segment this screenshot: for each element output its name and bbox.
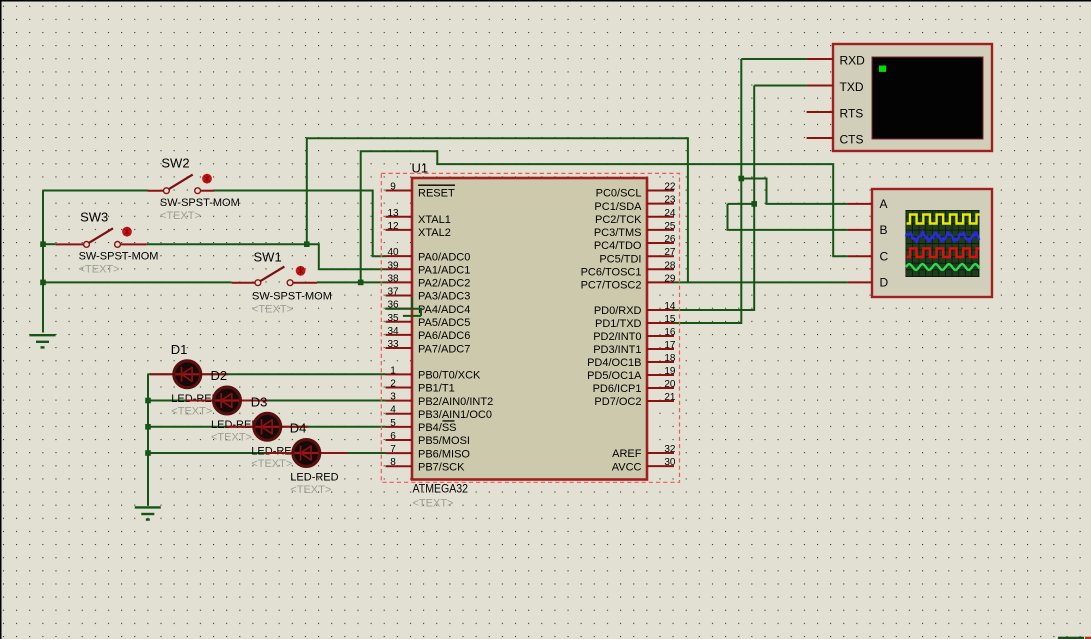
svg-text:7: 7: [390, 444, 396, 455]
window edge top: [0, 0, 1091, 2]
pin 22 PC0/SCL stub: [647, 190, 674, 192]
scope trace channel D green: [906, 264, 980, 270]
pin 2 PB1/T1 stub: [386, 386, 413, 388]
svg-text:<TEXT>: <TEXT>: [171, 406, 212, 418]
svg-text:PC7/TOSC2: PC7/TOSC2: [581, 280, 642, 292]
wire node JB to scope B: [728, 204, 848, 230]
ui fragment bottom right red: [1085, 637, 1091, 639]
svg-text:<TEXT>: <TEXT>: [252, 304, 293, 316]
wire fragment at PA4: [385, 298, 422, 316]
svg-text:SW-SPST-MOM: SW-SPST-MOM: [160, 197, 240, 209]
svg-text:PB2/AIN0/INT2: PB2/AIN0/INT2: [418, 396, 493, 408]
svg-text:12: 12: [387, 221, 399, 232]
svg-text:9: 9: [390, 182, 396, 193]
wire node J1 jog to PA1 pin39: [307, 244, 386, 269]
pin 39 PA1/ADC1 stub: [386, 268, 413, 270]
junction rail-SW1: [40, 280, 46, 286]
svg-text:24: 24: [664, 208, 676, 219]
svg-text:RESET: RESET: [418, 188, 455, 200]
pin 17 PD3/INT1 stub: [647, 348, 674, 350]
svg-text:TXD: TXD: [840, 80, 864, 94]
svg-text:PA2/ADC2: PA2/ADC2: [418, 278, 470, 290]
svg-text:XTAL2: XTAL2: [418, 227, 451, 239]
LED D3: [226, 413, 308, 440]
scope pin D: [848, 281, 872, 283]
svg-text:D3: D3: [251, 394, 268, 409]
svg-text:3: 3: [390, 392, 396, 403]
svg-text:6: 6: [390, 431, 396, 442]
svg-text:RTS: RTS: [840, 107, 864, 121]
pin 29 PC7/TOSC2 stub: [647, 281, 674, 283]
terminal pin RXD: [807, 58, 833, 60]
svg-text:PD3/INT1: PD3/INT1: [593, 344, 641, 356]
LED D2: [186, 387, 268, 414]
svg-text:<TEXT>: <TEXT>: [413, 498, 454, 510]
junction rail-D2: [145, 398, 151, 404]
svg-text:PA4/ADC4: PA4/ADC4: [418, 304, 470, 316]
wire PC7/TOSC2 pin29 to scope D: [674, 281, 848, 283]
wire RXD net down to PD1 pin15: [674, 59, 741, 323]
svg-text:PA5/ADC5: PA5/ADC5: [418, 317, 470, 329]
wire D2 row to PB2 pin3: [148, 400, 386, 402]
LED D4: [265, 440, 347, 467]
pin 28 PC6/TOSC1 stub: [647, 268, 674, 270]
pin 24 PC2/TCK stub: [647, 216, 674, 218]
pin 1 PB0/T0/XCK stub: [386, 373, 413, 375]
svg-text:D1: D1: [171, 342, 188, 357]
scope pin B: [848, 229, 872, 231]
svg-text:33: 33: [387, 339, 399, 350]
pin 26 PC4/TDO stub: [647, 242, 674, 244]
junction rail-SW3: [40, 241, 46, 247]
svg-text:U1: U1: [412, 161, 429, 176]
pin 32 AREF stub: [647, 452, 674, 454]
wire rail to SW1: [43, 281, 232, 283]
pin 25 PC3/TMS stub: [647, 229, 674, 231]
LED D1: [150, 361, 228, 388]
svg-text:4: 4: [390, 405, 396, 416]
overline SS: [443, 420, 455, 422]
svg-text:35: 35: [387, 313, 399, 324]
svg-text:PD5/OC1A: PD5/OC1A: [587, 370, 642, 382]
pin 18 PD4/OC1B stub: [647, 361, 674, 363]
svg-text:<TEXT>: <TEXT>: [290, 484, 331, 496]
svg-text:SW-SPST-MOM: SW-SPST-MOM: [79, 251, 159, 263]
wire D1 row to PB0 pin1: [148, 373, 386, 375]
pin 4 PB3/AIN1/OC0 stub: [386, 413, 413, 415]
ground for switches: [30, 335, 56, 347]
oscilloscope screen: [906, 210, 980, 277]
svg-text:PB5/MOSI: PB5/MOSI: [418, 435, 470, 447]
svg-text:39: 39: [387, 260, 399, 271]
wire SW2 to PA0 pin40: [214, 191, 386, 257]
svg-text:17: 17: [664, 340, 676, 351]
terminal cursor: [879, 66, 886, 72]
svg-text:25: 25: [664, 221, 676, 232]
scope pin C: [848, 255, 872, 257]
svg-text:PA1/ADC1: PA1/ADC1: [418, 264, 470, 276]
svg-text:C: C: [880, 250, 889, 264]
svg-text:A: A: [880, 197, 888, 211]
scope trace channel C red: [907, 249, 980, 258]
svg-text:SW2: SW2: [161, 156, 189, 171]
svg-text:PD1/TXD: PD1/TXD: [595, 318, 642, 330]
svg-text:29: 29: [664, 273, 676, 284]
svg-text:PA6/ADC6: PA6/ADC6: [418, 330, 470, 342]
svg-text:2: 2: [390, 378, 396, 389]
svg-text:LED-RED: LED-RED: [211, 419, 259, 431]
svg-text:8: 8: [390, 457, 396, 468]
pin 23 PC1/SDA stub: [647, 203, 674, 205]
junction J1 SW3 node: [304, 241, 310, 247]
pin 9 RESET stub: [386, 190, 413, 192]
pin 33 PA7/ADC7 stub: [386, 347, 413, 349]
svg-text:20: 20: [664, 379, 676, 390]
svg-text:PC0/SCL: PC0/SCL: [596, 188, 642, 200]
svg-text:<TEXT>: <TEXT>: [251, 458, 292, 470]
svg-text:5: 5: [390, 418, 396, 429]
pin 36 PA4/ADC4 stub: [386, 308, 413, 310]
junction JB on TXD net: [751, 201, 757, 207]
svg-text:SW-SPST-MOM: SW-SPST-MOM: [252, 291, 332, 303]
terminal pin TXD: [807, 85, 833, 87]
wire rail to SW3: [43, 243, 56, 245]
svg-text:PD4/OC1B: PD4/OC1B: [587, 357, 641, 369]
svg-text:D4: D4: [290, 421, 307, 436]
pin 38 PA2/ADC2 stub: [386, 281, 413, 283]
svg-text:27: 27: [664, 247, 676, 258]
wire terminal TXD feed: [754, 85, 806, 87]
wire node J2 up over chip to scope C: [361, 151, 848, 282]
svg-text:AVCC: AVCC: [612, 461, 642, 473]
pin 20 PD6/ICP1 stub: [647, 387, 674, 389]
junction rail-D4: [145, 450, 151, 456]
svg-text:28: 28: [664, 260, 676, 271]
svg-text:<TEXT>: <TEXT>: [211, 432, 252, 444]
svg-text:AREF: AREF: [612, 448, 642, 460]
svg-text:PC5/TDI: PC5/TDI: [599, 253, 641, 265]
pin 27 PC5/TDI stub: [647, 255, 674, 257]
svg-text:23: 23: [664, 195, 676, 206]
pin 15 PD1/TXD stub: [647, 322, 674, 324]
svg-text:B: B: [880, 223, 888, 237]
svg-text:15: 15: [664, 314, 676, 325]
wire node JB stub left: [728, 203, 755, 205]
svg-text:PA3/ADC3: PA3/ADC3: [418, 291, 470, 303]
svg-text:PA0/ADC0: PA0/ADC0: [418, 251, 470, 263]
svg-text:D: D: [880, 276, 889, 290]
pin 5 PB4/SS stub: [386, 426, 413, 428]
junction JA on RXD net: [739, 176, 745, 182]
wire TXD net down to PD0 pin14: [674, 86, 754, 311]
svg-text:PB3/AIN1/OC0: PB3/AIN1/OC0: [418, 409, 492, 421]
pin 12 XTAL2 stub: [386, 229, 413, 231]
svg-text:PA7/ADC7: PA7/ADC7: [418, 343, 470, 355]
wire switch ground rail: [42, 191, 44, 333]
svg-text:PD0/RXD: PD0/RXD: [594, 305, 642, 317]
svg-text:21: 21: [664, 392, 676, 403]
svg-text:PB7/SCK: PB7/SCK: [418, 461, 465, 473]
svg-text:PC6/TOSC1: PC6/TOSC1: [581, 267, 642, 279]
pin 8 PB7/SCK stub: [386, 465, 413, 467]
svg-text:34: 34: [387, 326, 399, 337]
svg-text:<TEXT>: <TEXT>: [160, 210, 201, 222]
svg-text:PC2/TCK: PC2/TCK: [595, 214, 642, 226]
svg-text:14: 14: [664, 301, 676, 312]
junction rail-D3: [145, 424, 151, 430]
svg-text:CTS: CTS: [840, 133, 864, 147]
svg-text:PD7/OC2: PD7/OC2: [594, 396, 641, 408]
window edge left: [0, 0, 2, 639]
scope pin A: [848, 203, 872, 205]
svg-text:13: 13: [387, 208, 399, 219]
wire terminal RXD feed: [741, 58, 806, 60]
scope trace channel A yellow: [907, 215, 980, 224]
svg-text:PC3/TMS: PC3/TMS: [594, 227, 642, 239]
wire D4 row to PB6 pin7: [148, 452, 386, 454]
svg-text:PC4/TDO: PC4/TDO: [594, 240, 642, 252]
svg-text:SW3: SW3: [80, 209, 108, 224]
svg-text:26: 26: [664, 234, 676, 245]
svg-text:PD6/ICP1: PD6/ICP1: [593, 383, 642, 395]
pin 30 AVCC stub: [647, 465, 674, 467]
svg-text:22: 22: [664, 182, 676, 193]
switch SW1: [232, 266, 317, 286]
oscilloscope box: [872, 189, 992, 297]
pin 14 PD0/RXD stub: [647, 309, 674, 311]
svg-text:<TEXT>: <TEXT>: [79, 264, 120, 276]
pin 35 PA5/ADC5 stub: [386, 321, 413, 323]
pin 13 XTAL1 stub: [386, 216, 413, 218]
ground for LEDs: [135, 507, 161, 519]
selection box U1: [381, 173, 679, 482]
svg-text:30: 30: [664, 457, 676, 468]
virtual terminal box: [833, 44, 992, 151]
svg-text:D2: D2: [211, 368, 228, 383]
svg-text:38: 38: [387, 273, 399, 284]
svg-text:40: 40: [387, 247, 399, 258]
pin 37 PA3/ADC3 stub: [386, 295, 413, 297]
overline RESET: [418, 184, 455, 186]
svg-text:1: 1: [390, 365, 396, 376]
svg-text:PB6/MISO: PB6/MISO: [418, 448, 470, 460]
pin 6 PB5/MOSI stub: [386, 439, 413, 441]
svg-text:PB4/SS: PB4/SS: [418, 422, 457, 434]
svg-text:RXD: RXD: [840, 54, 866, 68]
pin 7 PB6/MISO stub: [386, 452, 413, 454]
svg-text:32: 32: [664, 444, 676, 455]
svg-text:LED-RED: LED-RED: [290, 472, 338, 484]
scope trace channel B blue: [906, 232, 980, 242]
wire SW1 out to PA2 pin38: [317, 281, 386, 283]
pin 21 PD7/OC2 stub: [647, 400, 674, 402]
junction J2 SW1/PA2 node: [358, 280, 364, 286]
svg-text:16: 16: [664, 327, 676, 338]
svg-text:19: 19: [664, 366, 676, 377]
pin 16 PD2/INT0 stub: [647, 335, 674, 337]
wire LED ground rail: [147, 374, 149, 506]
svg-text:XTAL1: XTAL1: [418, 214, 451, 226]
svg-text:PB1/T1: PB1/T1: [418, 383, 455, 395]
svg-text:18: 18: [664, 353, 676, 364]
svg-text:PC1/SDA: PC1/SDA: [594, 201, 642, 213]
switch SW3: [56, 227, 147, 248]
pin 3 PB2/AIN0/INT2 stub: [386, 400, 413, 402]
wire node J1 up over chip to pin29 net: [307, 138, 688, 282]
svg-text:PD2/INT0: PD2/INT0: [593, 331, 641, 343]
svg-text:ATMEGA32: ATMEGA32: [413, 483, 469, 495]
svg-text:37: 37: [387, 287, 399, 298]
terminal screen: [872, 57, 983, 139]
terminal pin RTS: [807, 111, 833, 113]
svg-text:SW1: SW1: [254, 249, 282, 264]
chip U1 ATMEGA32 body: [412, 178, 647, 480]
wire SW3 out to node J1: [146, 243, 306, 245]
switch SW2: [147, 174, 214, 194]
svg-text:PB0/T0/XCK: PB0/T0/XCK: [418, 370, 481, 382]
terminal pin CTS: [807, 137, 833, 139]
pin 34 PA6/ADC6 stub: [386, 334, 413, 336]
pin 40 PA0/ADC0 stub: [386, 255, 413, 257]
wire node JA to scope A: [741, 179, 847, 204]
ui fragment bottom right green: [1058, 637, 1084, 639]
wire rail to SW2: [43, 190, 147, 192]
wire D3 row to PB4 pin5: [148, 426, 386, 428]
pin 19 PD5/OC1A stub: [647, 374, 674, 376]
